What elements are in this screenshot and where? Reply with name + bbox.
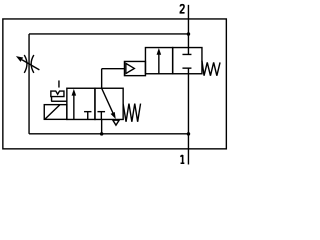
valve V2 left box blocked port	[84, 112, 91, 120]
wire left vertical (through throttle)	[28, 34, 30, 134]
valve V1 return spring	[202, 61, 220, 76]
wire V2 port1 drop	[101, 119, 103, 133]
label port 1	[180, 155, 184, 163]
junction bottom right	[187, 132, 191, 136]
valve V1 2/2 pilot-operated, boxes	[145, 48, 202, 74]
valve V1 right box blocked ports	[182, 48, 191, 74]
valve V2 right box exhaust path arrow	[102, 88, 116, 119]
valve V2 manual actuator: detent notch plate	[51, 91, 64, 97]
valve V2 3/2 manual, boxes	[67, 88, 123, 119]
valve V2 return spring	[123, 104, 140, 122]
wire top horizontal	[29, 33, 188, 35]
valve V2 manual actuator: plunger cap	[51, 100, 67, 102]
wire bottom horizontal	[29, 133, 188, 135]
enclosure frame	[3, 19, 226, 149]
wire pilot vertical drop	[101, 69, 103, 89]
valve V2 right box blocked port	[97, 112, 105, 120]
valve V2 manual actuator: plunger link	[51, 97, 53, 102]
wire port2-to-port1 vertical upper	[187, 5, 189, 48]
valve V2 left box flow arrow	[72, 89, 77, 120]
throttle valve (adjustable)	[16, 55, 40, 73]
wire pilot horizontal	[102, 68, 125, 70]
valve V1 left box flow arrow	[157, 48, 162, 74]
junction bottom mid	[100, 132, 104, 136]
junction top	[187, 32, 191, 36]
label port 2	[180, 5, 184, 13]
valve V1 pilot actuator box	[124, 61, 145, 75]
valve V2 manual actuator: detent pin	[58, 80, 60, 87]
valve V2 manual actuator: generic manual box	[44, 105, 67, 120]
wire port2-to-port1 vertical lower	[187, 74, 189, 165]
valve V2 exhaust silencer triangle	[113, 120, 119, 125]
